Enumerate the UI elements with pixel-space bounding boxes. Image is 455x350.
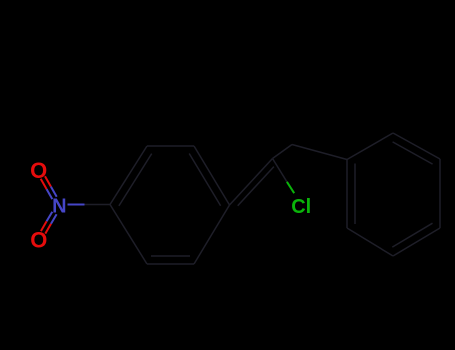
- wire ring2 edge T-TR: [393, 133, 440, 159]
- wire ring1 edge L-TL: [110, 146, 147, 205]
- svg-text:Cl: Cl: [291, 196, 311, 218]
- wire ring2 edge TR-BR: [439, 159, 441, 228]
- benzene ring 1 (4-nitrophenyl): [110, 146, 230, 264]
- ring1 aromatic inner line upper-right: [189, 154, 220, 206]
- wire ring1 edge BR-BL: [147, 263, 194, 265]
- wire C3-ring2 bond: [292, 145, 347, 160]
- wire C2-Cl bond carbon half: [273, 159, 287, 182]
- svg-text:O: O: [30, 158, 47, 183]
- wire C2-C3 bond: [273, 145, 293, 159]
- wire ring1 edge TL-TR: [147, 145, 194, 147]
- ring1 aromatic inner line bottom: [151, 255, 190, 257]
- ring2 aromatic inner line bottom-right: [392, 223, 432, 247]
- nitro group N=O top double bond: [41, 176, 110, 233]
- ring2 aromatic inner line left: [354, 164, 356, 225]
- N=O top red halves: [41, 176, 51, 189]
- wire ring1 edge R-BR: [194, 205, 230, 264]
- N-C bond carbon half: [85, 204, 111, 206]
- wire ring2 edge B-BL: [347, 228, 393, 256]
- svg-text:O: O: [30, 228, 47, 253]
- N=O bottom red halves: [41, 221, 51, 233]
- C-Cl bond chlorine half: [287, 182, 294, 193]
- chain: [230, 145, 348, 206]
- wire ring1 edge TR-R: [194, 146, 230, 205]
- ring1 aromatic inner line upper-left: [119, 154, 152, 206]
- N-C bond blue half: [68, 204, 85, 206]
- wire chain C1=C2 double bond inner: [238, 167, 274, 206]
- N=O bottom blue halves: [47, 212, 57, 224]
- wire ring2 edge BR-B: [393, 228, 440, 256]
- wire chain C1=C2 double bond main: [230, 159, 273, 206]
- N=O top blue halves: [47, 187, 57, 200]
- ring2 aromatic inner line top-right: [393, 142, 433, 164]
- benzene ring 2 (phenyl): [347, 133, 440, 256]
- wire ring1 edge BL-L: [110, 205, 147, 265]
- wire ring2 edge TL-T: [347, 133, 393, 160]
- wire ring2 edge BL-TL: [346, 160, 348, 229]
- svg-text:N: N: [52, 196, 66, 218]
